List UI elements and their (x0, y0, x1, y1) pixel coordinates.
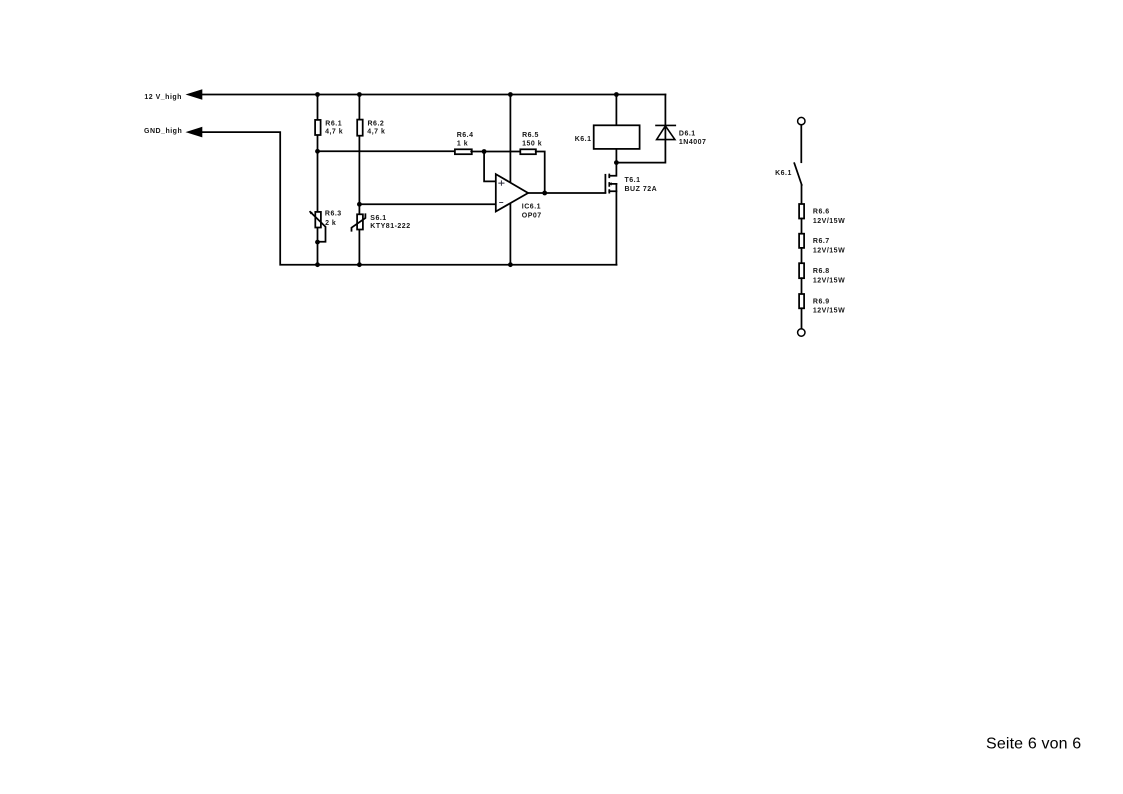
wire GND_high (203, 132, 617, 265)
svg-text:2 k: 2 k (325, 220, 336, 227)
svg-text:R6.3: R6.3 (325, 211, 342, 218)
svg-text:IC6.1: IC6.1 (522, 204, 541, 211)
node 12 V_high arrow (186, 89, 203, 100)
svg-text:4,7 k: 4,7 k (325, 129, 343, 136)
wire (801, 219, 803, 234)
svg-text:4,7 k: 4,7 k (367, 129, 385, 136)
wire R6.5 to output (536, 152, 545, 194)
wire supply vertical (509, 95, 511, 265)
switch K6.1 (794, 163, 801, 185)
wire minus input (359, 203, 495, 205)
wire (801, 308, 803, 328)
node GND_high arrow (186, 127, 203, 138)
resistor R6.3 (315, 212, 321, 228)
svg-text:GND_high: GND_high (144, 128, 182, 135)
svg-text:D6.1: D6.1 (679, 130, 696, 137)
wire R6.3 wiper (310, 212, 325, 242)
svg-text:12V/15W: 12V/15W (813, 277, 845, 284)
svg-text:12 V_high: 12 V_high (144, 94, 182, 101)
node junction dots (315, 92, 619, 267)
wire (801, 278, 803, 294)
svg-text:1 k: 1 k (457, 141, 468, 148)
node heater bottom terminal (798, 329, 805, 336)
wire S6.1 stroke (352, 214, 366, 231)
wire K6.1 coil drop (615, 95, 617, 163)
svg-text:T6.1: T6.1 (625, 177, 641, 184)
svg-text:12V/15W: 12V/15W (813, 248, 845, 255)
wire to switch (800, 125, 802, 162)
svg-text:R6.4: R6.4 (457, 132, 474, 139)
wire 12V rail (202, 94, 665, 96)
resistor R6.2 (357, 120, 363, 136)
svg-text:BUZ 72A: BUZ 72A (625, 186, 658, 193)
svg-text:K6.1: K6.1 (575, 136, 592, 143)
svg-text:1N4007: 1N4007 (679, 139, 707, 146)
resistor R6.7 (799, 234, 804, 248)
svg-text:R6.5: R6.5 (522, 132, 539, 139)
node heater top terminal (798, 117, 805, 124)
wire R6.2 column (358, 95, 360, 265)
resistor R6.6 (799, 204, 804, 219)
svg-text:Seite 6 von 6: Seite 6 von 6 (986, 736, 1081, 753)
svg-text:S6.1: S6.1 (370, 215, 386, 222)
op-amp IC6.1 (496, 174, 528, 211)
resistor R6.1 (315, 120, 321, 135)
resistor R6.8 (799, 263, 804, 278)
relay coil K6.1 (594, 125, 640, 149)
svg-text:K6.1: K6.1 (775, 170, 792, 177)
resistor R6.9 (799, 294, 804, 308)
wire bridge to R6.4 (318, 150, 456, 152)
svg-text:R6.8: R6.8 (813, 268, 830, 275)
svg-text:R6.2: R6.2 (368, 120, 385, 127)
svg-text:R6.9: R6.9 (813, 298, 830, 305)
sensor S6.1 (357, 214, 363, 229)
resistor R6.5 (520, 149, 536, 154)
svg-text:KTY81-222: KTY81-222 (370, 223, 410, 230)
wire R6.1 column (317, 95, 319, 265)
svg-text:R6.1: R6.1 (325, 120, 342, 127)
diode D6.1 (616, 95, 665, 163)
wire R6.4 to R6.5 (471, 151, 520, 153)
wire output (528, 192, 605, 194)
svg-text:R6.7: R6.7 (813, 238, 830, 245)
wire (801, 248, 803, 263)
svg-text:12V/15W: 12V/15W (813, 308, 845, 315)
svg-text:OP07: OP07 (522, 212, 542, 219)
transistor T6.1 (609, 163, 616, 176)
wire plus input (484, 152, 496, 182)
resistor R6.4 (455, 149, 472, 154)
svg-text:12V/15W: 12V/15W (813, 218, 845, 225)
svg-text:R6.6: R6.6 (813, 209, 830, 216)
svg-text:150 k: 150 k (522, 141, 542, 148)
